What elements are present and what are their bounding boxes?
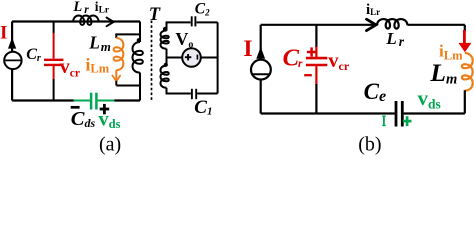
current source I (b) bbox=[251, 47, 271, 80]
label green tick (b) bbox=[382, 116, 386, 126]
current source I (a) bbox=[4, 37, 21, 69]
inductor Lm (a) bbox=[114, 38, 124, 70]
label vds (b) bbox=[418, 86, 441, 112]
transformer primary winding (a) bbox=[133, 42, 143, 73]
capacitor Cds (a) green bbox=[74, 93, 114, 110]
label vcr (b) bbox=[328, 50, 350, 73]
label vds (a) bbox=[98, 109, 120, 132]
wire: (b) right rail lower lead bbox=[464, 90, 466, 113]
wire: (a) secondary lower winding top lead bbox=[166, 58, 168, 66]
capacitor Cr (a) bbox=[44, 22, 63, 101]
svg-text:I: I bbox=[0, 23, 7, 44]
label Lm (b) bbox=[429, 58, 457, 87]
caption (a) bbox=[99, 134, 121, 156]
wire: (a) secondary bottom rail right of C1 bbox=[197, 93, 217, 95]
svg-text:C1: C1 bbox=[194, 97, 212, 118]
wire: (a) Lm top connector bbox=[115, 34, 140, 38]
svg-text:C2: C2 bbox=[195, 1, 210, 18]
wire: (b) left rail bbox=[260, 25, 262, 114]
label iLr (b) bbox=[366, 2, 380, 18]
svg-text:Lr: Lr bbox=[72, 0, 89, 16]
wire: (a) secondary top lead bbox=[167, 22, 191, 30]
transformer secondary lower winding dot bbox=[164, 63, 168, 67]
arrow iLm (a) + Lm bottom lead bbox=[112, 70, 121, 85]
arrow iLr (a) bbox=[107, 18, 114, 27]
label Ce (b) bbox=[364, 79, 386, 105]
voltage source Vo (a) bbox=[182, 48, 217, 67]
wire: (a) left rail bbox=[11, 22, 13, 101]
label Cr (a) bbox=[26, 46, 41, 64]
wire: (b) bottom rail right segment bbox=[404, 112, 465, 114]
wire: (a) bottom rail left segment bbox=[12, 99, 74, 101]
label vcr (a) bbox=[60, 56, 80, 79]
svg-text:iLr: iLr bbox=[366, 2, 380, 18]
label C1 bbox=[194, 97, 212, 118]
wire: (a) secondary bottom lead bbox=[167, 88, 191, 94]
wire: (a) primary branch bottom lead bbox=[139, 73, 141, 101]
wire: (a) middle wire to Vo bbox=[167, 57, 183, 59]
wire: (b) bottom rail left segment bbox=[261, 112, 395, 114]
wire: (a) top rail bbox=[12, 20, 140, 22]
label Lr (b) bbox=[385, 29, 404, 49]
wire: (a) secondary right rail bbox=[217, 22, 219, 93]
transformer primary polarity dot bbox=[137, 38, 141, 42]
inductor Lm (b) bbox=[462, 53, 473, 91]
svg-text:Cr: Cr bbox=[26, 46, 41, 64]
transformer secondary upper winding dot bbox=[163, 27, 167, 31]
label Vo bbox=[175, 29, 193, 50]
svg-text:(b): (b) bbox=[358, 134, 381, 156]
transformer secondary upper winding bbox=[161, 31, 169, 49]
svg-text:Lr: Lr bbox=[385, 29, 404, 49]
svg-text:iLr: iLr bbox=[95, 0, 110, 15]
caption (b) bbox=[358, 134, 381, 156]
svg-text:iLm: iLm bbox=[86, 54, 110, 75]
arrow iLr (b) bbox=[367, 19, 377, 30]
svg-text:Vo: Vo bbox=[175, 29, 193, 50]
transformer T core dashed line bbox=[151, 21, 153, 102]
label Lm (a) bbox=[88, 33, 111, 54]
label minus sign red (b) bbox=[304, 74, 312, 76]
label plus sign green (b) bbox=[403, 116, 412, 126]
svg-text:(a): (a) bbox=[99, 134, 121, 156]
svg-text:Cr: Cr bbox=[283, 44, 303, 71]
svg-text:vds: vds bbox=[98, 109, 120, 132]
inductor Lr (a) bbox=[73, 15, 99, 24]
label plus sign red (b) bbox=[307, 47, 316, 56]
transformer secondary lower winding bbox=[161, 66, 169, 88]
svg-text:Ce: Ce bbox=[364, 79, 386, 105]
arrow iLm red (b) bbox=[458, 30, 471, 52]
capacitor C1 (a) bbox=[192, 89, 196, 99]
svg-text:I: I bbox=[243, 36, 252, 62]
label T bbox=[149, 5, 161, 25]
wire: (a) secondary top rail right of C2 bbox=[197, 21, 218, 23]
label Cds (a) bbox=[71, 108, 96, 130]
wire: (b) top rail right segment bbox=[407, 24, 464, 26]
label I (b) bbox=[243, 36, 252, 62]
wire: (a) bottom rail right segment bbox=[114, 99, 140, 101]
label iLr (a) bbox=[95, 0, 110, 15]
label iLm (b) bbox=[439, 42, 463, 63]
wire: (b) right rail upper lead bbox=[464, 25, 466, 32]
wire: (a) primary branch top lead bbox=[139, 22, 141, 43]
svg-text:vcr: vcr bbox=[60, 56, 80, 79]
svg-text:Cds: Cds bbox=[71, 108, 96, 130]
inductor Lr (b) bbox=[377, 19, 407, 29]
label minus sign for Cds (a) bbox=[71, 106, 80, 109]
wire: (a) secondary center tap lead bbox=[166, 49, 168, 58]
capacitor Ce (b) bbox=[396, 101, 402, 127]
capacitor C2 (a) bbox=[192, 16, 196, 26]
svg-text:T: T bbox=[149, 5, 161, 25]
wire: (a) Lm bottom connector bbox=[116, 85, 140, 87]
label I (a) bbox=[0, 23, 7, 44]
svg-text:vds: vds bbox=[418, 86, 441, 112]
label Lr (a) bbox=[72, 0, 89, 16]
label plus sign green (a) bbox=[100, 104, 110, 114]
svg-text:Lm: Lm bbox=[88, 33, 111, 54]
wire: (b) top rail left segment bbox=[261, 24, 377, 26]
label Cr (b) bbox=[283, 44, 303, 71]
capacitor Cr (b) bbox=[306, 25, 327, 114]
label C2 bbox=[195, 1, 210, 18]
label iLm (a) bbox=[86, 54, 110, 75]
svg-text:vcr: vcr bbox=[328, 50, 350, 73]
